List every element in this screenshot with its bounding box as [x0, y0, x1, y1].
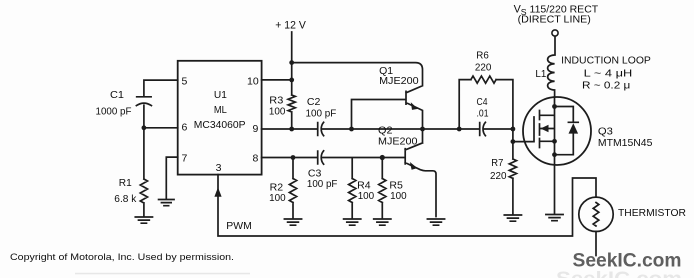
- svg-text:6.8 k: 6.8 k: [114, 193, 137, 205]
- svg-text:Copyright of Motorola, Inc. Us: Copyright of Motorola, Inc. Used by perm…: [10, 252, 234, 263]
- svg-text:R7: R7: [491, 157, 503, 169]
- svg-text:100 pF: 100 pF: [306, 107, 337, 119]
- svg-text:SeekIC.com: SeekIC.com: [556, 268, 682, 278]
- svg-text:(DIRECT LINE): (DIRECT LINE): [518, 14, 591, 26]
- svg-text:100: 100: [269, 192, 286, 204]
- svg-text:U1: U1: [214, 89, 227, 101]
- svg-text:C1: C1: [110, 89, 124, 101]
- svg-text:1000 pF: 1000 pF: [96, 106, 132, 118]
- svg-text:6: 6: [182, 122, 188, 134]
- svg-text:R6: R6: [476, 50, 489, 62]
- svg-text:C4: C4: [477, 96, 488, 108]
- svg-text:R ~ 0.2 μ: R ~ 0.2 μ: [582, 80, 630, 92]
- svg-text:INDUCTION LOOP: INDUCTION LOOP: [561, 55, 651, 67]
- svg-text:MTM15N45: MTM15N45: [598, 137, 653, 149]
- svg-text:ML: ML: [214, 104, 227, 116]
- svg-text:9: 9: [253, 123, 259, 135]
- svg-text:3: 3: [216, 162, 222, 174]
- svg-text:MC34060P: MC34060P: [194, 119, 246, 131]
- svg-text:7: 7: [182, 153, 188, 165]
- svg-text:L ~ 4 μH: L ~ 4 μH: [584, 68, 633, 80]
- svg-text:220: 220: [490, 170, 507, 182]
- svg-text:Q3: Q3: [598, 126, 613, 138]
- svg-text:5: 5: [182, 76, 188, 88]
- svg-text:MJE200: MJE200: [378, 136, 418, 148]
- svg-text:L1: L1: [535, 68, 546, 80]
- svg-text:100 pF: 100 pF: [307, 178, 338, 190]
- svg-text:MJE200: MJE200: [379, 75, 419, 87]
- svg-text:+ 12 V: + 12 V: [275, 20, 306, 32]
- svg-text:.01: .01: [477, 108, 489, 120]
- svg-text:PWM: PWM: [226, 220, 252, 232]
- svg-text:10: 10: [247, 76, 259, 88]
- svg-text:100: 100: [390, 190, 407, 202]
- svg-text:100: 100: [358, 190, 375, 202]
- svg-text:THERMISTOR: THERMISTOR: [618, 207, 686, 219]
- svg-text:100: 100: [269, 105, 286, 117]
- svg-text:R1: R1: [119, 177, 132, 189]
- svg-text:220: 220: [475, 62, 492, 74]
- svg-text:8: 8: [253, 153, 259, 165]
- svg-text:C2: C2: [307, 96, 321, 108]
